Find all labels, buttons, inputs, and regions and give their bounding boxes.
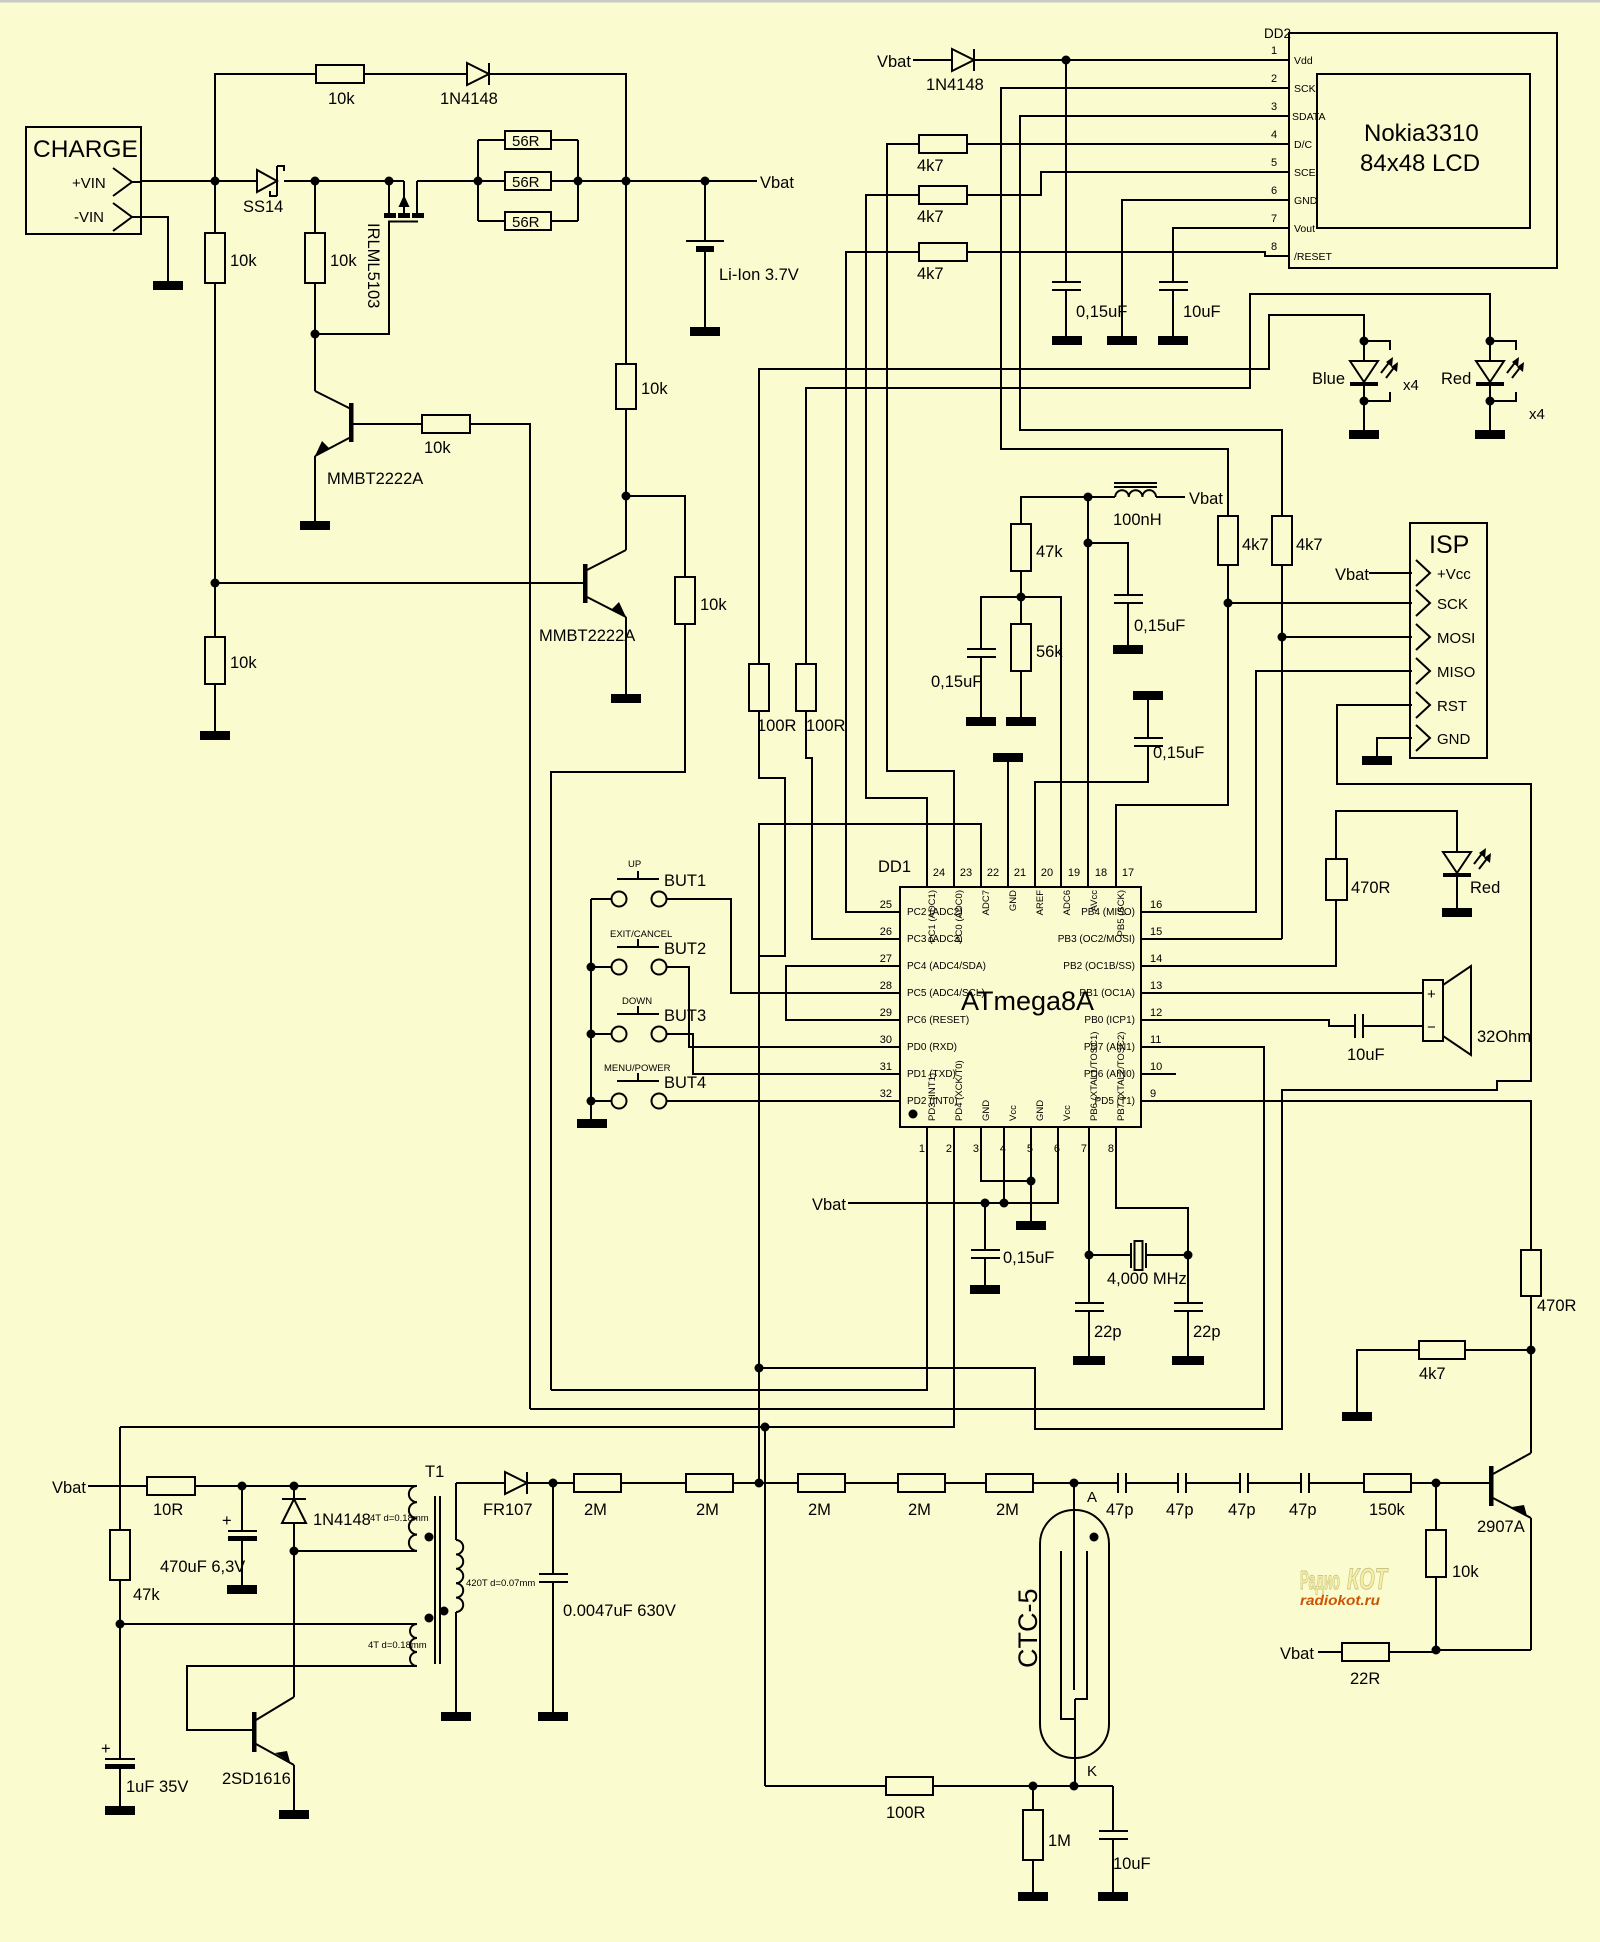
svg-text:x4: x4: [1403, 377, 1419, 394]
svg-text:17: 17: [1122, 867, 1134, 879]
svg-text:K: K: [1087, 1763, 1097, 1780]
capacitor C11 470uF 6,3V: [160, 1486, 257, 1585]
wire MOSI to ISP: [1282, 636, 1412, 638]
IC DD1 right pin names: [1058, 907, 1135, 1107]
svg-text:+: +: [1427, 986, 1436, 1003]
wire SCK to ISP: [1228, 602, 1412, 604]
svg-text:4k7: 4k7: [1296, 536, 1323, 554]
svg-text:BUT3: BUT3: [664, 1007, 706, 1025]
svg-text:BUT4: BUT4: [664, 1074, 706, 1092]
svg-text:T1: T1: [425, 1463, 444, 1481]
wire PD4 pin2 net: [120, 1127, 954, 1427]
transistor Q2 MMBT2222A (second): [539, 496, 635, 694]
svg-text:/RESET: /RESET: [1294, 251, 1333, 263]
svg-text:47p: 47p: [1166, 1501, 1194, 1519]
node junction SS14 out: [311, 177, 320, 186]
ground for C8: [1073, 1356, 1105, 1365]
svg-text:5: 5: [1027, 1143, 1033, 1155]
svg-text:29: 29: [880, 1007, 892, 1019]
resistor R4 10k base resistor: [422, 415, 470, 457]
ground for ISP: [1362, 756, 1392, 765]
node junction MOSI to ISP: [1278, 633, 1287, 642]
wire Vbat to +Vcc: [1369, 572, 1412, 574]
ground for Red LED: [1475, 430, 1505, 439]
svg-text:Vdd: Vdd: [1294, 55, 1313, 67]
button BUT3 DOWN: [587, 996, 901, 1074]
capacitor C6 0,15uF AREF: [1035, 691, 1204, 887]
ground for LCD GND: [1107, 336, 1137, 345]
node junction feedback: [116, 1620, 125, 1629]
svg-text:6: 6: [1271, 185, 1277, 197]
IC DD1 pin numbers bottom: [919, 1143, 1114, 1155]
svg-text:1N4148: 1N4148: [440, 90, 498, 108]
capacitor C13 1uF 35V: [101, 1624, 188, 1806]
wire PB1 pin13 to speaker plus: [1141, 992, 1423, 994]
svg-text:10k: 10k: [328, 90, 355, 108]
svg-text:10uF: 10uF: [1113, 1855, 1151, 1873]
resistor R31 1M: [1023, 1786, 1071, 1892]
svg-text:PD5 (T1): PD5 (T1): [1094, 1096, 1135, 1107]
svg-text:Vcc: Vcc: [1062, 1105, 1073, 1121]
svg-text:ADC7: ADC7: [981, 890, 992, 915]
wire ISP GND to ground: [1377, 738, 1412, 756]
resistor R2 10k vertical (charge detect): [205, 181, 257, 637]
svg-text:GND: GND: [1035, 1100, 1046, 1121]
svg-text:1M: 1M: [1048, 1832, 1071, 1850]
svg-text:10k: 10k: [1452, 1563, 1479, 1581]
transistor Q4 2SD1616: [222, 1551, 294, 1810]
node junction SCK to ISP: [1224, 599, 1233, 608]
svg-text:5: 5: [1271, 157, 1277, 169]
svg-text:PD4 (XCK/T0): PD4 (XCK/T0): [954, 1060, 965, 1121]
logo Radio KOT: [1300, 1563, 1389, 1608]
node junction Geiger pulse tee: [761, 1423, 770, 1432]
resistor R8 4k7 (D/C): [887, 135, 967, 887]
svg-text:84x48 LCD: 84x48 LCD: [1360, 150, 1480, 177]
svg-text:Vbat: Vbat: [1280, 1645, 1314, 1663]
svg-text:D/C: D/C: [1294, 139, 1313, 151]
svg-text:ADC6: ADC6: [1062, 890, 1073, 915]
wire PD3 pin1 net: [551, 1127, 927, 1390]
resistor R22 2M #1: [574, 1474, 686, 1519]
svg-text:AREF: AREF: [1035, 890, 1046, 916]
svg-text:4k7: 4k7: [917, 157, 944, 175]
svg-text:56R: 56R: [512, 174, 540, 191]
ground for status LED: [1442, 908, 1472, 917]
ground for pins 3,5: [1016, 1221, 1046, 1230]
resistor R5 10k vertical under Vbat node: [616, 181, 668, 496]
svg-text:MISO: MISO: [1437, 664, 1475, 681]
resistor R6 10k collector load: [551, 496, 727, 1390]
capacitor C16 47p #3: [1228, 1473, 1301, 1519]
node junction HV cap tap: [549, 1479, 558, 1488]
capacitor C1 0,15uF Vdd: [1052, 60, 1127, 336]
svg-text:0,15uF: 0,15uF: [1076, 303, 1127, 321]
resistor R19 4k7 beeper bias: [1357, 1341, 1531, 1412]
svg-text:BUT2: BUT2: [664, 940, 706, 958]
svg-text:19: 19: [1068, 867, 1080, 879]
svg-text:0,15uF: 0,15uF: [931, 673, 982, 691]
node junction anode A: [1070, 1479, 1079, 1488]
svg-text:470uF 6,3V: 470uF 6,3V: [160, 1558, 245, 1576]
resistor R13 4k7 series SCK: [1116, 516, 1269, 887]
ground for -VIN: [153, 281, 183, 290]
svg-text:+Vcc: +Vcc: [1437, 566, 1471, 583]
resistor R27 150k: [1364, 1474, 1436, 1519]
svg-text:12: 12: [1150, 1007, 1162, 1019]
resistor R9 4k7 (SCE): [866, 186, 967, 887]
svg-text:4k7: 4k7: [917, 265, 944, 283]
svg-text:1: 1: [919, 1143, 925, 1155]
svg-text:Vbat: Vbat: [1335, 566, 1369, 584]
svg-text:420T d=0.07mm: 420T d=0.07mm: [466, 1578, 535, 1589]
wire XTAL1 pin7: [1088, 1127, 1090, 1255]
svg-text:Vbat: Vbat: [812, 1196, 846, 1214]
wire PB0 pin12 to coupling cap: [1141, 1020, 1355, 1026]
svg-text:Li-Ion 3.7V: Li-Ion 3.7V: [719, 266, 799, 284]
svg-text:PB6 (XTAL1/TOSC1): PB6 (XTAL1/TOSC1): [1089, 1032, 1100, 1121]
wire SDATA from LCD pin3: [1020, 116, 1289, 516]
svg-text:14: 14: [1150, 953, 1162, 965]
wire base resistor to long bus: [470, 424, 530, 1409]
svg-text:18: 18: [1095, 867, 1107, 879]
svg-text:47k: 47k: [1036, 543, 1063, 561]
svg-text:10: 10: [1150, 1061, 1162, 1073]
transformer T1 secondary winding 420T: [440, 1483, 536, 1712]
svg-text:-VIN: -VIN: [74, 209, 104, 226]
LED Red x4: [1441, 337, 1545, 431]
svg-text:Vcc: Vcc: [1008, 1105, 1019, 1121]
svg-text:radiokot.ru: radiokot.ru: [1300, 1592, 1380, 1608]
svg-text:47k: 47k: [133, 1586, 160, 1604]
ground for secondary: [441, 1712, 471, 1721]
svg-text:4k7: 4k7: [917, 208, 944, 226]
resistor R30 100R pulse out: [765, 1427, 933, 1822]
svg-text:1N4148: 1N4148: [926, 76, 984, 94]
svg-text:CTC-5: CTC-5: [1013, 1589, 1043, 1669]
wire GND pins 3,5: [981, 1127, 1031, 1221]
ground for battery: [690, 327, 720, 336]
svg-text:Vbat: Vbat: [760, 174, 794, 192]
svg-text:4T d=0.18mm: 4T d=0.18mm: [370, 1513, 429, 1524]
svg-text:2M: 2M: [808, 1501, 831, 1519]
wire 1N4148 to Vbat node: [489, 74, 626, 181]
resistor bank 56R x3: [478, 131, 578, 231]
node junction Vcc cap: [981, 1199, 990, 1208]
ground for Q2 emitter: [611, 694, 641, 703]
svg-text:DD2: DD2: [1264, 26, 1291, 41]
transistor Q1 MMBT2222A (first): [315, 334, 423, 521]
wire MISO to ISP: [1141, 671, 1412, 912]
svg-text:21: 21: [1014, 867, 1026, 879]
svg-text:28: 28: [880, 980, 892, 992]
svg-text:PC6 (RESET): PC6 (RESET): [907, 1015, 969, 1026]
wire cathode row: [932, 1785, 1113, 1787]
wire Red LED net: [806, 294, 1490, 664]
svg-text:47p: 47p: [1228, 1501, 1256, 1519]
resistor R23 2M #2: [686, 1474, 798, 1519]
svg-text:27: 27: [880, 953, 892, 965]
svg-text:SS14: SS14: [243, 198, 283, 216]
svg-text:PC1 (ADC1): PC1 (ADC1): [927, 890, 938, 943]
node junction divider: [1017, 593, 1026, 602]
node junction Vdd decouple: [1062, 56, 1071, 65]
IC DD1 left pin names: [907, 907, 986, 1107]
svg-text:150k: 150k: [1369, 1501, 1406, 1519]
resistor R3 10k vertical (gate pulldown): [305, 181, 357, 334]
svg-text:100R: 100R: [757, 717, 797, 735]
wire 10k to 1N4148: [364, 73, 467, 75]
svg-text:470R: 470R: [1537, 1297, 1577, 1315]
svg-text:0.0047uF 630V: 0.0047uF 630V: [563, 1602, 676, 1620]
ground for R19: [1342, 1412, 1372, 1421]
ground for C7: [970, 1285, 1000, 1294]
capacitor C2 10uF Vout: [1159, 228, 1289, 336]
diode VD SS14: [243, 166, 284, 216]
svg-text:SCK: SCK: [1294, 83, 1316, 95]
svg-text:MMBT2222A: MMBT2222A: [327, 470, 423, 488]
wire divider to ADC6: [1021, 597, 1061, 887]
svg-text:2M: 2M: [996, 1501, 1019, 1519]
svg-text:PD0 (RXD): PD0 (RXD): [907, 1042, 957, 1053]
ground for C5: [966, 717, 996, 726]
svg-text:FR107: FR107: [483, 1501, 533, 1519]
resistor R10 4k7 (/RESET): [846, 243, 967, 912]
svg-text:A: A: [1087, 1489, 1097, 1506]
wire 100R left chain: [759, 711, 785, 956]
svg-text:SDATA: SDATA: [1292, 111, 1325, 123]
wire Vbat to diode: [913, 59, 952, 61]
connector X2 ISP: [1410, 523, 1487, 758]
LED Red status: [1443, 848, 1500, 908]
svg-text:IRLML5103: IRLML5103: [364, 223, 382, 308]
svg-text:SCK: SCK: [1437, 596, 1468, 613]
wire ADC7 pin22 channel: [759, 824, 981, 1483]
capacitor C10 10uF coupling: [1347, 1014, 1423, 1064]
node junction battery tap: [701, 177, 710, 186]
tube VL1 CTC-5 Geiger: [1013, 1483, 1109, 1786]
svg-text:AVcc: AVcc: [1089, 890, 1100, 912]
wire SCK from LCD pin2: [1001, 88, 1289, 516]
wire GND pin6 to ground: [1122, 200, 1289, 336]
svg-text:GND: GND: [1294, 195, 1318, 207]
node junction gnd pins: [1027, 1177, 1036, 1186]
connector X1 CHARGE box: [26, 127, 141, 234]
node junction gate: [311, 330, 320, 339]
svg-text:2M: 2M: [696, 1501, 719, 1519]
svg-text:56R: 56R: [512, 214, 540, 231]
wire XTAL2 pin8: [1116, 1127, 1188, 1255]
svg-text:PC4 (ADC4/SDA): PC4 (ADC4/SDA): [907, 961, 986, 972]
svg-text:2: 2: [1271, 73, 1277, 85]
svg-text:100nH: 100nH: [1113, 511, 1162, 529]
capacitor C15 47p #2: [1166, 1473, 1240, 1519]
node junction base drive: [211, 579, 220, 588]
resistor R21 47k feedback: [110, 1427, 160, 1624]
svg-text:32Ohm: 32Ohm: [1477, 1028, 1531, 1046]
resistor R18 470R beeper base: [1521, 1250, 1577, 1453]
ground for Q1 emitter: [300, 521, 330, 530]
svg-text:8: 8: [1271, 241, 1277, 253]
wire Vbat to 10R: [88, 1485, 147, 1487]
svg-text:10uF: 10uF: [1183, 303, 1221, 321]
node junction 56R left: [474, 177, 483, 186]
svg-text:MMBT2222A: MMBT2222A: [539, 627, 635, 645]
svg-text:25: 25: [880, 899, 892, 911]
svg-text:13: 13: [1150, 980, 1162, 992]
inductor L1 100nH: [1113, 483, 1185, 529]
svg-text:PB1 (OC1A): PB1 (OC1A): [1079, 988, 1135, 999]
capacitor C8 22p left: [1075, 1255, 1122, 1356]
svg-text:470R: 470R: [1351, 879, 1391, 897]
svg-text:MOSI: MOSI: [1437, 630, 1475, 647]
IC DD1 bottom pin names: [927, 1032, 1127, 1121]
svg-text:16: 16: [1150, 899, 1162, 911]
wire -VIN to ground: [132, 217, 168, 281]
crystal ZQ1 4,000 MHz: [1089, 1241, 1188, 1288]
wire D/C from LCD pin4: [967, 143, 1289, 145]
svg-text:47p: 47p: [1289, 1501, 1317, 1519]
svg-text:7: 7: [1271, 213, 1277, 225]
transformer T1 core: [435, 1496, 440, 1664]
ground for C11: [227, 1585, 257, 1594]
svg-text:0,15uF: 0,15uF: [1153, 744, 1204, 762]
node junction xtal right: [1184, 1251, 1193, 1260]
ground for C2: [1158, 336, 1188, 345]
ground for C9: [1172, 1356, 1204, 1365]
resistor R26 2M #5: [986, 1474, 1118, 1519]
node junction emitter row: [1432, 1646, 1441, 1655]
svg-text:56k: 56k: [1036, 643, 1063, 661]
wire PD5 pin9 to beeper: [1141, 1101, 1531, 1250]
transformer T1 feedback winding 4T: [120, 1614, 434, 1731]
svg-text:DOWN: DOWN: [622, 996, 652, 1007]
svg-text:100R: 100R: [886, 1804, 926, 1822]
svg-text:Vbat: Vbat: [877, 53, 911, 71]
svg-text:MENU/POWER: MENU/POWER: [604, 1063, 671, 1074]
capacitor C7 0,15uF Vcc: [971, 1203, 1054, 1285]
svg-text:22p: 22p: [1193, 1323, 1221, 1341]
wire base node to Q2 base: [215, 582, 583, 584]
resistor R24 2M #3: [798, 1474, 898, 1519]
node junction ADC tap: [755, 1479, 764, 1488]
wire primary top: [294, 1485, 417, 1487]
resistor R12 56k: [1011, 597, 1063, 717]
node junction base divider: [1432, 1479, 1441, 1488]
svg-text:4: 4: [1271, 129, 1277, 141]
svg-text:SCE: SCE: [1294, 167, 1316, 179]
svg-text:26: 26: [880, 926, 892, 938]
svg-text:CHARGE: CHARGE: [33, 136, 138, 163]
svg-text:4,000 MHz: 4,000 MHz: [1107, 1270, 1187, 1288]
svg-text:+: +: [101, 1740, 111, 1758]
svg-text:100R: 100R: [806, 717, 846, 735]
wire up to top 10k row: [215, 74, 316, 181]
ground for Q4 emitter: [279, 1810, 309, 1819]
wire +VIN to SS14: [132, 181, 257, 182]
diode VD5 FR107: [483, 1472, 574, 1519]
button BUT4 MENU/POWER: [587, 1063, 901, 1109]
ground for buttons: [577, 1119, 607, 1128]
svg-text:15: 15: [1150, 926, 1162, 938]
node junction diode drop: [622, 177, 631, 186]
ground for Blue LED: [1349, 430, 1379, 439]
wire Blue LED net: [759, 315, 1364, 664]
svg-text:56R: 56R: [512, 133, 540, 150]
diode VD2 1N4148: [926, 49, 984, 94]
svg-text:10R: 10R: [153, 1501, 183, 1519]
wire SS14 cathode to MOSFET: [284, 180, 404, 182]
node junction K: [1070, 1782, 1079, 1791]
resistor R11 47k: [1011, 524, 1063, 597]
svg-text:GND: GND: [981, 1100, 992, 1121]
wire GND pin21 to ground: [1007, 762, 1009, 887]
wire PC6 RESET pin29 U-link: [786, 966, 900, 1020]
resistor R20 10R: [147, 1477, 294, 1519]
svg-text:PB2 (OC1B/SS): PB2 (OC1B/SS): [1063, 961, 1135, 972]
transistor Q IRLML5103 P-MOSFET: [364, 177, 424, 309]
resistor R7 10k to ground: [205, 637, 257, 731]
ground for C1: [1052, 336, 1082, 345]
svg-text:4: 4: [1000, 1143, 1006, 1155]
svg-text:PC0 (ADC0): PC0 (ADC0): [954, 890, 965, 943]
capacitor C4 0,15uF AVcc: [1088, 543, 1185, 645]
svg-text:+: +: [222, 1512, 232, 1530]
capacitor C17 47p #4: [1289, 1473, 1364, 1519]
ground for C4: [1113, 645, 1143, 654]
svg-text:22: 22: [987, 867, 999, 879]
svg-text:10k: 10k: [641, 380, 668, 398]
svg-text:GND: GND: [1008, 890, 1019, 911]
svg-text:0,15uF: 0,15uF: [1003, 1249, 1054, 1267]
node junction primary top: [290, 1482, 299, 1491]
svg-text:2907A: 2907A: [1477, 1518, 1525, 1536]
capacitor C14 47p #1: [1106, 1473, 1178, 1519]
svg-text:2M: 2M: [584, 1501, 607, 1519]
svg-text:8: 8: [1108, 1143, 1114, 1155]
wire SCE from LCD pin5: [967, 172, 1289, 195]
wire diode to Vdd pin1: [974, 59, 1289, 61]
diode VD4 1N4148 snubber: [282, 1486, 371, 1551]
battery G1 Li-Ion 3.7V: [686, 181, 799, 327]
page top edge: [0, 0, 1600, 3]
svg-text:1: 1: [1271, 45, 1277, 57]
node junction at +VIN column: [211, 177, 220, 186]
svg-text:2: 2: [946, 1143, 952, 1155]
svg-text:Red: Red: [1470, 879, 1500, 897]
svg-text:20: 20: [1041, 867, 1053, 879]
svg-text:10k: 10k: [330, 252, 357, 270]
node junction xtal left: [1085, 1251, 1094, 1260]
svg-text:2SD1616: 2SD1616: [222, 1770, 291, 1788]
wire PD6 pin10 stub: [1141, 1073, 1176, 1075]
svg-text:−: −: [1427, 1019, 1436, 1036]
transformer T1 primary winding 4T: [294, 1486, 434, 1551]
wire AVcc rail: [1021, 497, 1115, 887]
resistor R16 100R (right): [796, 664, 900, 939]
ground for R7: [200, 731, 230, 740]
svg-text:2M: 2M: [908, 1501, 931, 1519]
diode VD 1N4148 top: [440, 63, 498, 108]
svg-text:22p: 22p: [1094, 1323, 1122, 1341]
svg-text:BUT1: BUT1: [664, 872, 706, 890]
svg-text:Blue: Blue: [1312, 370, 1345, 388]
svg-text:EXIT/CANCEL: EXIT/CANCEL: [610, 929, 672, 940]
wire PD7 pin11 net: [530, 1047, 1264, 1409]
svg-text:4k7: 4k7: [1242, 536, 1269, 554]
node junction ADC7 chain: [755, 1364, 764, 1373]
resistor R top 10k: [316, 65, 364, 83]
